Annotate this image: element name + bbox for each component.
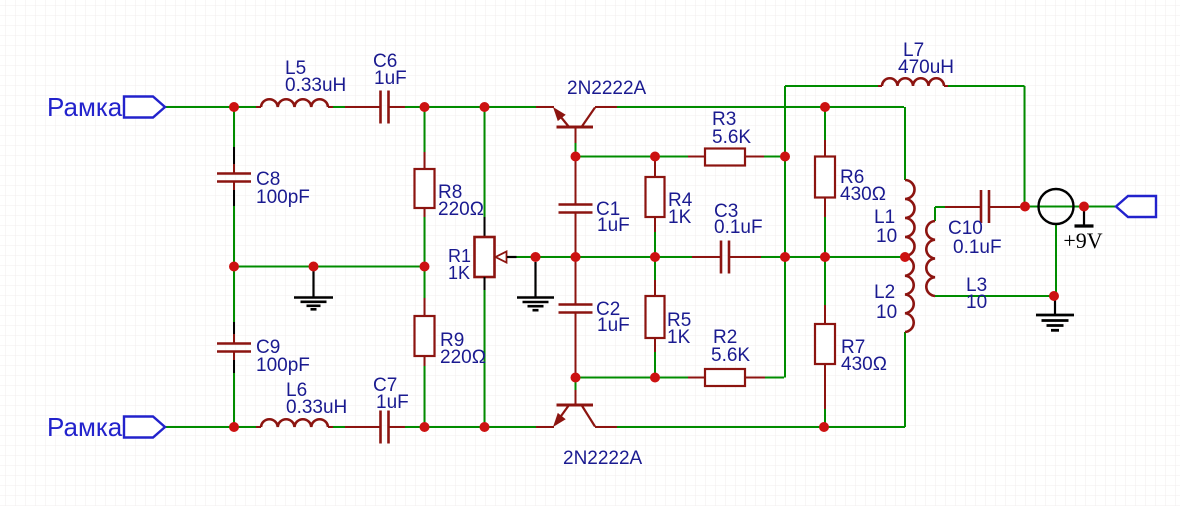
- wire L5-C6: [333, 106, 345, 108]
- svg-text:0.1uF: 0.1uF: [714, 217, 763, 238]
- wire R5 to row: [654, 352, 656, 378]
- svg-text:0.33uH: 0.33uH: [286, 397, 347, 418]
- wire L2 to bottom: [904, 332, 906, 427]
- svg-text:Рамка: Рамка: [47, 92, 123, 122]
- wire bottom rail left: [165, 426, 256, 428]
- capacitor C8: [217, 147, 310, 208]
- wire Q1 base stub: [575, 143, 577, 157]
- svg-text:2N2222A: 2N2222A: [567, 78, 647, 99]
- svg-text:C10: C10: [948, 218, 983, 239]
- svg-text:5.6K: 5.6K: [712, 127, 751, 148]
- svg-text:1K: 1K: [667, 327, 691, 348]
- capacitor C10: [945, 190, 1020, 258]
- wire feed top: [785, 85, 878, 87]
- svg-text:10: 10: [876, 302, 897, 323]
- wire C10 output row: [1020, 206, 1116, 208]
- svg-text:470uH: 470uH: [898, 57, 954, 78]
- inductor L1: [874, 180, 915, 256]
- svg-text:2N2222A: 2N2222A: [563, 448, 643, 469]
- wire source to ground row: [1055, 224, 1057, 296]
- junction C1-C2 node: [571, 252, 581, 262]
- junction mid rail / R8-R9: [420, 262, 430, 272]
- resistor R8: [415, 152, 484, 220]
- wire C9 to bottom: [233, 373, 235, 427]
- junction top rail / R6 branch: [820, 102, 830, 112]
- potentiometer R1: [448, 217, 517, 290]
- resistor R6: [815, 140, 886, 217]
- voltage source circle: [1039, 189, 1074, 224]
- svg-text:L2: L2: [874, 282, 895, 303]
- resistor R3: [688, 109, 764, 166]
- ground output: [1036, 296, 1074, 330]
- junction source output: [1079, 202, 1089, 212]
- junction top rail / R8 branch: [420, 102, 430, 112]
- wire R7 to bottom: [824, 409, 826, 427]
- wire Q2 base stub: [575, 378, 577, 391]
- svg-text:1uF: 1uF: [597, 215, 630, 236]
- svg-text:1K: 1K: [668, 207, 692, 228]
- junction wiper / ground: [531, 252, 541, 262]
- wire L6-C7: [333, 426, 345, 428]
- inductor L3: [926, 221, 987, 313]
- wire feed vertical: [784, 86, 786, 378]
- junction Q2 base node: [571, 373, 581, 383]
- junction mid rail / C8-C9: [229, 262, 239, 272]
- wire top rail left: [165, 106, 256, 108]
- junction bottom rail / R7 branch: [819, 422, 829, 432]
- junction L1-L2 tap: [900, 252, 910, 262]
- inductor L5: [256, 58, 346, 107]
- svg-text:1K: 1K: [448, 263, 470, 283]
- svg-text:430Ω: 430Ω: [841, 354, 887, 375]
- svg-text:220Ω: 220Ω: [440, 347, 486, 368]
- ground mid-left: [294, 271, 333, 309]
- svg-text:1uF: 1uF: [374, 68, 407, 89]
- wire R6 to row: [824, 212, 826, 257]
- svg-text:0.1uF: 0.1uF: [953, 237, 1002, 258]
- junction R5 bottom node: [650, 373, 660, 383]
- svg-text:Рамка: Рамка: [47, 412, 123, 442]
- resistor R2: [688, 327, 765, 386]
- svg-text:220Ω: 220Ω: [438, 199, 484, 220]
- svg-text:1uF: 1uF: [597, 315, 630, 336]
- wire base row Q2: [576, 377, 689, 379]
- junction bottom rail / R1 branch: [480, 422, 490, 432]
- wire bottom rail mid: [405, 426, 536, 428]
- svg-text:1uF: 1uF: [376, 392, 409, 413]
- wire mid-left rail: [234, 266, 425, 268]
- svg-text:+9V: +9V: [1063, 228, 1102, 253]
- power flag +9V: [1063, 208, 1102, 253]
- svg-text:L1: L1: [874, 207, 895, 228]
- inductor L7: [878, 40, 954, 86]
- junction R3 / feed line: [780, 152, 790, 162]
- inductor L2: [874, 257, 914, 332]
- resistor R9: [415, 298, 486, 368]
- wire corner to C10 node: [1024, 86, 1026, 207]
- resistor R7: [815, 305, 887, 409]
- wire top rail mid: [405, 106, 536, 108]
- inductor L6: [256, 380, 347, 427]
- wire top rail right: [617, 106, 904, 108]
- output port: [1116, 196, 1156, 217]
- transistor Q2 2N2222A: [536, 390, 643, 469]
- wire L3 bottom row: [935, 295, 1054, 297]
- junction R6-R7 node: [820, 252, 830, 262]
- wire R9 to bottom: [424, 366, 426, 427]
- wire R3 to node: [764, 156, 785, 158]
- wire node to R1: [484, 107, 486, 217]
- junction top rail / C8 branch: [229, 102, 239, 112]
- junction Q1 base node: [571, 152, 581, 162]
- junction R4 top node: [650, 152, 660, 162]
- wire L3 to C10: [935, 206, 947, 208]
- capacitor C3: [692, 201, 763, 274]
- junction C3 / feed line: [780, 252, 790, 262]
- svg-text:0.33uH: 0.33uH: [285, 75, 346, 96]
- svg-text:10: 10: [966, 292, 987, 313]
- wire L7 to corner: [948, 85, 1025, 87]
- wire L3 top stub: [934, 207, 936, 221]
- wire row to R5: [654, 257, 656, 280]
- junction bottom rail / R9 branch: [420, 422, 430, 432]
- capacitor C6: [345, 51, 407, 124]
- capacitor C9: [217, 322, 310, 376]
- wire node to R6: [824, 107, 826, 140]
- wire node to R8: [424, 107, 426, 152]
- capacitor C2: [559, 257, 630, 378]
- wire R4 to row: [654, 232, 656, 257]
- junction mid rail / ground: [309, 262, 319, 272]
- wire R8 to mid rail: [424, 217, 426, 298]
- wire R1 to bottom: [484, 290, 486, 427]
- wire R2 to node: [765, 377, 784, 379]
- ground wiper: [517, 262, 554, 310]
- svg-text:100pF: 100pF: [256, 355, 310, 376]
- resistor R5: [646, 280, 692, 352]
- wire wiper row: [517, 256, 715, 258]
- junction bottom rail / C9 branch: [229, 422, 239, 432]
- port Рамка top: [47, 92, 165, 122]
- svg-text:430Ω: 430Ω: [840, 184, 886, 205]
- svg-text:5.6K: 5.6K: [711, 345, 750, 366]
- capacitor C7: [345, 375, 409, 444]
- wire C8 to mid rail: [233, 206, 235, 322]
- wire base row Q1: [576, 156, 689, 158]
- junction R4-R5 node: [650, 252, 660, 262]
- port Рамка bottom: [47, 412, 165, 442]
- resistor R4: [646, 157, 693, 233]
- wire bottom rail right: [617, 426, 905, 428]
- junction C10 / L7 corner: [1020, 202, 1030, 212]
- svg-text:10: 10: [876, 226, 897, 247]
- junction top rail / R1 branch: [480, 102, 490, 112]
- svg-text:100pF: 100pF: [256, 187, 310, 208]
- capacitor C1: [559, 157, 630, 258]
- wire C3 to transformer: [744, 256, 905, 258]
- wire row to R7: [824, 257, 826, 305]
- junction L3 / ground: [1049, 291, 1059, 301]
- wire top to L1: [904, 107, 906, 180]
- transistor Q1 2N2222A: [536, 78, 647, 143]
- wire port1 drop: [233, 107, 235, 147]
